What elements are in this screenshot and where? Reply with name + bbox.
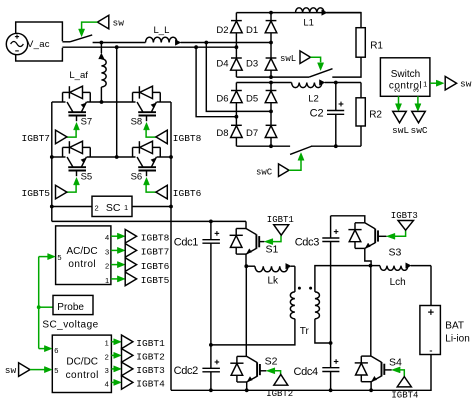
IGBT2 tag triangle at S2 xyxy=(274,375,288,386)
capacitor Cdc4 xyxy=(322,367,339,369)
wire line B V_ac bottom pin to D2-D4 midpoint xyxy=(62,46,236,48)
diode D5 xyxy=(270,83,272,91)
wire secondary top to S3/S4 midpoint xyxy=(315,266,371,292)
IGBT S1 antiparallel diode xyxy=(236,228,246,230)
plus sign Cdc4 xyxy=(334,361,339,363)
IGBT S3 antiparallel diode xyxy=(355,222,365,224)
diode D4 xyxy=(235,47,237,58)
IGBT8 tag triangle xyxy=(125,229,136,243)
buffer triangle IGBT7 xyxy=(56,130,67,144)
wire R1 bottom to swL xyxy=(332,57,361,77)
svg-text:IGBT2: IGBT2 xyxy=(136,352,165,363)
capacitor C2 xyxy=(335,83,337,111)
svg-text:IGBT6: IGBT6 xyxy=(141,261,170,272)
wire SC minus bus to Cdc1 top rail xyxy=(52,220,246,222)
IGBT S8 antiparallel diode xyxy=(132,92,134,102)
gate lead S1 xyxy=(259,241,264,243)
IGBT4 tag triangle xyxy=(122,376,133,390)
wire bridge2 top rail xyxy=(236,82,291,84)
svg-text:Cdc2: Cdc2 xyxy=(174,365,199,377)
transistor S3 xyxy=(365,223,375,229)
green arrow Switch control out 3 xyxy=(417,96,419,105)
svg-text:IGBT4: IGBT4 xyxy=(391,390,418,400)
transformer Tr secondary polarity dot xyxy=(309,287,312,290)
svg-text:S6: S6 xyxy=(131,171,143,182)
wire bridge2 bottom rail xyxy=(236,145,290,147)
junction Cdc2 bottom xyxy=(209,388,213,392)
wire line A from switch to D1 leg xyxy=(93,42,146,44)
diode D7 xyxy=(270,111,272,125)
junction D1 cathode xyxy=(269,11,273,15)
junction line B at D2-D4 midpoint xyxy=(235,45,239,49)
svg-text:IGBT8: IGBT8 xyxy=(141,233,170,244)
junction primary return on Cdc leg xyxy=(209,343,213,347)
junction C2 top xyxy=(334,81,338,85)
resistor R1 xyxy=(356,28,365,58)
wire L1 to R1 xyxy=(327,13,361,28)
svg-text:S3: S3 xyxy=(389,247,402,259)
IGBT3 tag triangle at S3 xyxy=(398,221,414,231)
svg-text:Lch: Lch xyxy=(390,277,406,288)
svg-text:D2: D2 xyxy=(216,25,228,36)
svg-text:Li-ion: Li-ion xyxy=(445,334,469,345)
plus sign Cdc2 xyxy=(215,361,220,363)
AC source plus sign xyxy=(15,36,19,38)
IGBT7 tag triangle xyxy=(125,244,136,258)
IGBT3 tag triangle xyxy=(122,362,133,376)
svg-text:Lk: Lk xyxy=(268,276,280,287)
svg-text:swL: swL xyxy=(280,54,296,64)
IGBT2 tag triangle xyxy=(122,349,133,363)
svg-text:L_af: L_af xyxy=(69,70,88,81)
junction line A at D1-D3 midpoint xyxy=(269,41,273,45)
junction S2 bottom xyxy=(245,388,249,392)
svg-text:3: 3 xyxy=(105,247,109,256)
junction at D6-D8 midpoint xyxy=(235,115,239,119)
green wire swC xyxy=(289,160,301,170)
wire Lk to primary xyxy=(294,266,296,292)
transistor S5 xyxy=(67,157,73,167)
junction D7 anode xyxy=(269,144,273,148)
gate lead S3 xyxy=(378,235,386,237)
wire line B drop to D6-D8 midpoint xyxy=(196,47,236,117)
wire AF right rail xyxy=(170,102,172,390)
junction C2 bottom xyxy=(334,144,338,148)
wire Cdc3 top rail xyxy=(331,216,365,223)
svg-text:IGBT6: IGBT6 xyxy=(173,188,202,199)
junction line A / x206 drop xyxy=(204,41,208,45)
svg-text:R2: R2 xyxy=(369,110,382,121)
svg-text:swL: swL xyxy=(392,125,409,136)
wire R2 top lead xyxy=(360,83,362,98)
switch swL blade xyxy=(309,69,332,77)
green arrow into DC/DC pin6 xyxy=(39,348,46,350)
junction D5 cathode xyxy=(269,81,273,85)
diode D1 xyxy=(270,13,272,21)
svg-text:SC: SC xyxy=(106,202,121,214)
svg-text:L_L: L_L xyxy=(154,25,170,36)
wire bridge1 bottom rail xyxy=(236,76,309,78)
subsystem DC/DC control box xyxy=(52,335,111,392)
plus sign Cdc3 xyxy=(334,231,339,233)
swC tag triangle xyxy=(412,111,426,122)
svg-text:swC: swC xyxy=(411,125,428,136)
green arrow DC/DC to IGBT3 xyxy=(111,368,114,370)
sw tag triangle bottom left xyxy=(19,363,30,377)
IGBT S6 antiparallel diode xyxy=(132,147,134,157)
svg-text:BAT: BAT xyxy=(445,321,464,332)
capacitor Cdc3 xyxy=(330,216,332,238)
svg-text:4: 4 xyxy=(105,379,109,388)
svg-text:IGBT3: IGBT3 xyxy=(136,365,165,376)
svg-text:Tr: Tr xyxy=(300,326,310,337)
probe Probe box xyxy=(53,295,93,314)
battery BAT Li-ion box xyxy=(420,306,441,355)
svg-text:2: 2 xyxy=(392,88,401,92)
svg-text:IGBT5: IGBT5 xyxy=(22,188,51,199)
svg-text:Probe: Probe xyxy=(57,302,84,313)
wire R2 bottom lead xyxy=(360,126,362,146)
inductor L2 xyxy=(292,83,322,88)
svg-text:L1: L1 xyxy=(303,17,314,28)
IGBT S5 antiparallel diode xyxy=(62,147,64,157)
svg-text:Cdc3: Cdc3 xyxy=(295,236,320,248)
svg-text:sw: sw xyxy=(460,78,472,89)
wire V_ac top pin to switch xyxy=(62,41,70,43)
junction Cdc1 top xyxy=(209,220,213,224)
svg-text:IGBT7: IGBT7 xyxy=(22,133,51,144)
wire bottom DC rail xyxy=(171,355,431,391)
green wire swL xyxy=(311,57,321,62)
junction left rail / SC wire xyxy=(50,205,54,209)
transformer Tr secondary winding xyxy=(315,292,320,319)
gate lead S4 xyxy=(384,369,391,371)
green junction probe tap xyxy=(37,305,41,309)
svg-text:IGBT1: IGBT1 xyxy=(136,338,165,349)
green arrow sw to DC/DC pin5 xyxy=(30,369,46,371)
supercapacitor SC box xyxy=(92,196,132,216)
AC source V_ac box xyxy=(16,22,63,61)
junction L_af / AF top row xyxy=(100,100,104,104)
green arrow into S2 gate xyxy=(266,368,274,374)
junction line B / bridge drop x116 xyxy=(115,45,119,49)
subsystem Switch control box xyxy=(380,58,430,97)
svg-text:R1: R1 xyxy=(370,41,383,52)
svg-text:IGBT4: IGBT4 xyxy=(136,379,165,390)
green wire SC_voltage bus xyxy=(38,257,40,349)
plus sign C2 xyxy=(339,103,344,105)
svg-text:1: 1 xyxy=(423,79,427,88)
svg-text:ontrol: ontrol xyxy=(68,259,96,270)
inductor Lch xyxy=(371,265,381,267)
wire line A drop to D5-D7 midpoint xyxy=(206,43,271,112)
IGBT S4 antiparallel diode xyxy=(361,355,371,357)
AC source minus sign xyxy=(15,50,19,52)
svg-text:DC/DC: DC/DC xyxy=(66,356,98,367)
svg-text:Cdc1: Cdc1 xyxy=(174,236,199,248)
junction line A / L_af xyxy=(100,41,104,45)
gate drive arrow S6 xyxy=(144,178,150,185)
svg-text:2: 2 xyxy=(105,262,109,271)
IGBT4 tag triangle at S4 xyxy=(397,377,411,387)
transistor S2 xyxy=(247,356,257,362)
inductor L_L xyxy=(146,37,178,42)
buffer triangle IGBT8 xyxy=(156,130,167,144)
svg-text:6: 6 xyxy=(54,346,58,355)
svg-text:C2: C2 xyxy=(310,108,324,120)
svg-text:1: 1 xyxy=(124,203,128,212)
green arrow DC/DC to IGBT1 xyxy=(111,341,114,343)
svg-text:IGBT1: IGBT1 xyxy=(267,215,294,225)
junction S1/S2 midpoint xyxy=(244,264,248,268)
junction D3 anode xyxy=(269,75,273,79)
svg-text:IGBT3: IGBT3 xyxy=(391,211,418,221)
svg-text:AC/DC: AC/DC xyxy=(66,246,97,257)
IGBT5 tag triangle xyxy=(125,272,136,286)
swC control triangle xyxy=(279,164,290,177)
inductor L1 xyxy=(296,8,325,13)
gate drive arrow S8 xyxy=(144,123,150,130)
wire AF left rail xyxy=(51,102,53,221)
diode D8 xyxy=(235,117,237,126)
svg-text:D8: D8 xyxy=(216,128,228,139)
green arrow DC/DC to IGBT4 xyxy=(111,381,114,383)
gate lead S2 xyxy=(260,370,266,372)
wire bridge1 top rail xyxy=(236,12,361,14)
diode D6 xyxy=(235,83,237,91)
green arrow into S3 gate xyxy=(387,233,395,239)
junction Cdc4 bottom xyxy=(329,388,333,392)
junction secondary at Cdc mid xyxy=(329,341,333,345)
svg-text:1: 1 xyxy=(105,276,109,285)
wire Lch to battery plus xyxy=(430,266,432,306)
svg-text:S2: S2 xyxy=(265,355,278,367)
wire S3 emitter jog to midpoint xyxy=(365,248,371,265)
svg-text:V_ac: V_ac xyxy=(27,39,50,50)
svg-text:L2: L2 xyxy=(308,94,319,105)
diode D3 xyxy=(270,43,272,59)
IGBT S2 antiparallel diode xyxy=(237,355,247,357)
junction at D5-D7 midpoint xyxy=(269,110,273,114)
svg-text:IGBT8: IGBT8 xyxy=(173,133,202,144)
green arrow into AC/DC pin5 xyxy=(39,256,49,258)
transformer Tr primary winding xyxy=(290,292,295,319)
svg-text:D7: D7 xyxy=(246,128,258,139)
battery plus sign xyxy=(428,311,434,313)
AC source circle symbol xyxy=(6,33,27,54)
transistor S8 xyxy=(137,102,143,112)
wire S1 emitter to mid node xyxy=(245,254,247,266)
wire primary bottom return xyxy=(211,319,295,345)
inductor L_af xyxy=(100,43,102,54)
wire line B drop to bridge mid rail xyxy=(116,47,118,157)
subsystem AC/DC control box xyxy=(56,226,111,285)
capacitor Cdc2 xyxy=(202,367,220,369)
switch sw blade xyxy=(70,35,92,42)
green arrow AC/DC to IGBT5 xyxy=(111,278,118,280)
transformer Tr primary polarity dot xyxy=(298,287,301,290)
resistor R2 xyxy=(356,98,365,126)
svg-text:S4: S4 xyxy=(389,357,402,369)
buffer triangle IGBT5 xyxy=(56,185,67,199)
battery minus sign xyxy=(430,350,432,352)
svg-text:sw: sw xyxy=(5,365,17,376)
swL tag triangle xyxy=(393,111,407,122)
wire AF top row xyxy=(52,101,66,103)
svg-text:D1: D1 xyxy=(246,25,258,36)
IGBT1 tag triangle at S1 xyxy=(274,225,289,236)
transistor S7 xyxy=(67,102,73,112)
svg-text:sw: sw xyxy=(113,18,125,29)
green arrow onto switch xyxy=(79,29,85,37)
junction S4 bottom xyxy=(369,388,373,392)
wire Cdc1 top rail corner to S1 xyxy=(245,221,247,228)
svg-text:D3: D3 xyxy=(246,58,258,69)
svg-text:IGBT7: IGBT7 xyxy=(141,247,170,258)
svg-text:D4: D4 xyxy=(216,58,228,69)
svg-text:3: 3 xyxy=(105,366,109,375)
wire SC pin1 to right rail xyxy=(132,206,171,208)
IGBT1 tag triangle xyxy=(122,335,133,349)
sw tag triangle right xyxy=(445,76,456,90)
green wire sw to switch xyxy=(82,22,98,29)
transistor S1 xyxy=(246,229,256,235)
green arrow AC/DC to IGBT8 xyxy=(111,235,118,237)
svg-text:4: 4 xyxy=(105,233,109,242)
wire S2 emitter to bottom rail xyxy=(246,382,248,390)
diode D2 xyxy=(235,13,237,21)
junction x116 / mid rail xyxy=(115,155,119,159)
svg-text:S5: S5 xyxy=(81,171,93,182)
svg-text:3: 3 xyxy=(412,88,421,92)
wire S1-S2 mid vertical xyxy=(245,266,247,356)
wire AF mid row xyxy=(52,156,66,158)
svg-text:SC_voltage: SC_voltage xyxy=(42,319,98,330)
gate drive arrow S5 xyxy=(74,178,80,185)
svg-text:swC: swC xyxy=(256,167,273,177)
junction right rail / SC wire xyxy=(169,205,173,209)
svg-text:S8: S8 xyxy=(131,116,143,127)
svg-text:IGBT5: IGBT5 xyxy=(141,275,170,286)
svg-text:D5: D5 xyxy=(246,93,258,104)
green arrow DC/DC to IGBT2 xyxy=(111,354,114,356)
wire SC pin2 to left rail xyxy=(52,206,92,208)
svg-text:control: control xyxy=(66,370,99,381)
transistor S4 xyxy=(371,356,381,362)
svg-text:Cdc4: Cdc4 xyxy=(294,366,319,378)
gate drive arrow S7 xyxy=(74,123,80,130)
wire secondary bottom to Cdc3/Cdc4 midpoint xyxy=(315,319,331,343)
green wire to Probe xyxy=(39,306,53,308)
capacitor Cdc1 xyxy=(210,221,212,239)
green arrow into S1 gate xyxy=(264,239,272,245)
green arrow into S4 gate xyxy=(392,367,400,373)
svg-text:2: 2 xyxy=(105,352,109,361)
svg-text:D6: D6 xyxy=(216,93,228,104)
inductor Lk xyxy=(246,265,255,267)
green arrow AC/DC to IGBT6 xyxy=(111,264,118,266)
svg-text:5: 5 xyxy=(57,253,61,262)
green arrow Switch control out 1 xyxy=(430,82,437,84)
svg-text:1: 1 xyxy=(105,339,109,348)
wire swC to C2/R2 bottom xyxy=(311,145,361,147)
switch swC blade xyxy=(290,146,312,154)
svg-text:2: 2 xyxy=(95,204,99,213)
junction line B / x196 drop xyxy=(194,45,198,49)
svg-text:S7: S7 xyxy=(81,116,93,127)
green arrow onto swC xyxy=(298,153,304,161)
IGBT6 tag triangle xyxy=(125,258,136,272)
wire S3-S4 mid vertical xyxy=(370,266,372,357)
svg-text:S1: S1 xyxy=(266,243,279,255)
sw control triangle xyxy=(97,15,108,29)
svg-text:Switch: Switch xyxy=(391,69,420,80)
green arrow onto swL xyxy=(318,63,324,71)
junction right rail / mid rail xyxy=(169,155,173,159)
green arrow Switch control out 2 xyxy=(398,96,400,105)
swL control triangle xyxy=(300,51,311,64)
transistor S6 xyxy=(137,157,143,167)
buffer triangle IGBT6 xyxy=(156,185,167,199)
junction left rail / mid rail xyxy=(50,155,54,159)
green arrow AC/DC to IGBT7 xyxy=(111,249,118,251)
junction S3/S4 midpoint xyxy=(369,264,373,268)
IGBT S7 antiparallel diode xyxy=(62,92,64,102)
wire S4 emitter to bottom rail xyxy=(370,382,372,391)
plus sign Cdc1 xyxy=(215,232,220,234)
svg-text:5: 5 xyxy=(54,366,58,375)
